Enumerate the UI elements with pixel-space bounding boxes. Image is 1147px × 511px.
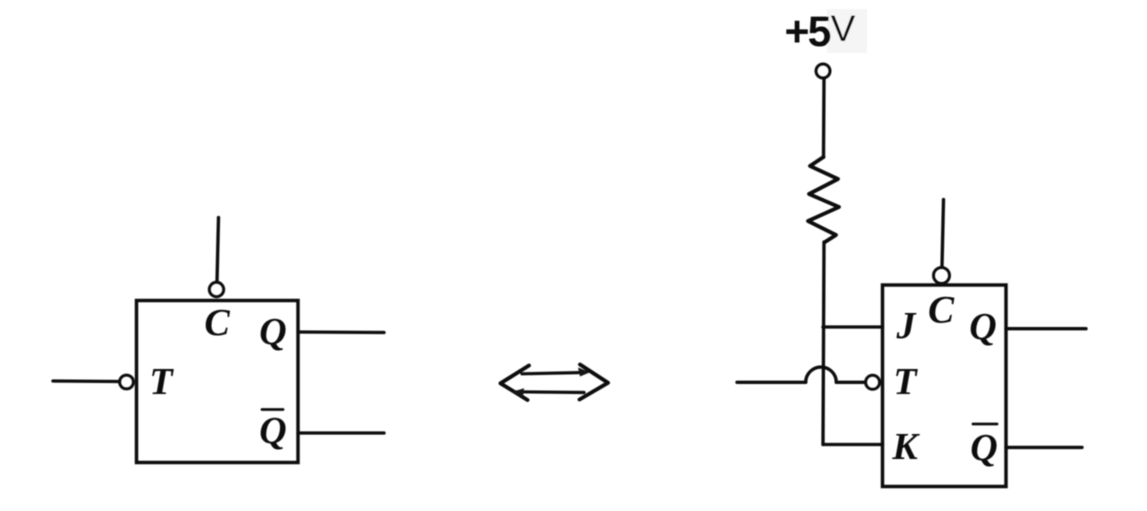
JK flip-flop U2 box [883, 285, 1007, 487]
wire: junction to J input of U2 [823, 325, 883, 328]
+5V supply terminal [816, 64, 830, 78]
label Q pin of U1 [259, 311, 286, 353]
+5V supply label [784, 8, 830, 56]
wire: U2 Qbar output [1006, 446, 1082, 449]
svg-text:+5: +5 [784, 8, 830, 56]
label Qbar pin of U1 (letter) [259, 410, 286, 452]
label Qbar pin of U2 (letter) [970, 427, 997, 469]
label K pin of U2 [891, 426, 920, 468]
svg-text:Q: Q [259, 311, 286, 353]
svg-text:V: V [831, 8, 856, 49]
label T pin of U1 [149, 361, 174, 403]
wire: T input of U2 (right segment to bubble) [836, 381, 865, 384]
inversion bubble on U1 clock [209, 282, 223, 296]
T flip-flop U1 box [137, 301, 299, 463]
wire: U2 clock stub [942, 200, 944, 268]
svg-text:C: C [204, 302, 230, 344]
wire: resistor R1 down to K corner [823, 242, 824, 445]
label C pin of U1 [204, 302, 230, 344]
label Q pin of U2 [969, 306, 996, 348]
wire: U1 Q output [298, 330, 384, 334]
svg-text:Q: Q [970, 427, 997, 469]
wire: U2 Q output [1006, 327, 1086, 330]
svg-text:K: K [891, 426, 920, 468]
wire: U1 Qbar output [298, 431, 384, 434]
label C pin of U2 [928, 289, 955, 332]
inversion bubble on U2 clock [934, 268, 950, 284]
label Qbar pin of U2 (overline) [973, 423, 997, 426]
wire: U1 T input [53, 379, 120, 383]
label J pin of U2 [896, 305, 917, 347]
equivalence arrow [501, 365, 609, 401]
wire: U1 clock stub [217, 218, 219, 283]
wire hop over vertical net at T input [806, 367, 837, 382]
svg-text:Q: Q [259, 410, 286, 452]
resistor R1 [808, 157, 839, 242]
svg-text:T: T [149, 361, 174, 403]
wire: bottom corner to K input of U2 [823, 443, 883, 446]
label Qbar pin of U1 (overline) [262, 408, 283, 411]
wire: T input of U2 (left segment) [737, 381, 806, 384]
inversion bubble on U2 T input [866, 375, 880, 389]
wire: supply terminal to resistor R1 [822, 79, 826, 158]
svg-text:T: T [893, 361, 918, 403]
+5V supply label highlight patch [827, 9, 867, 53]
svg-text:J: J [896, 305, 917, 347]
svg-text:C: C [928, 289, 955, 332]
inversion bubble on U1 T input [120, 375, 134, 389]
label T pin of U2 [893, 361, 918, 403]
svg-text:Q: Q [969, 306, 996, 348]
